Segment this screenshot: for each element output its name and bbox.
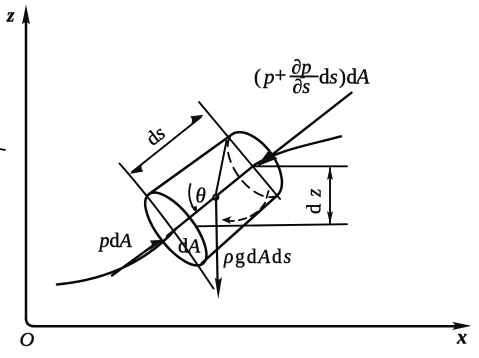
cylinder right face visible rim	[233, 132, 282, 195]
svg-text:∂s: ∂s	[293, 76, 311, 98]
z-axis arrowhead	[22, 5, 30, 25]
dz dimension vertical line	[329, 168, 331, 223]
x-axis	[26, 319, 455, 326]
svg-text:θ: θ	[196, 184, 206, 208]
angle arc dashed	[224, 191, 269, 221]
ds dimension arrow left	[130, 162, 145, 174]
label (p + dp/ds ds) dA	[254, 57, 370, 99]
ds dimension line	[132, 117, 201, 172]
gravity force arrow	[216, 197, 218, 279]
svg-text:+: +	[275, 63, 287, 87]
cylinder axis	[167, 165, 255, 236]
angle arc solid	[189, 184, 194, 210]
pressure force arrow pdA	[112, 246, 153, 276]
svg-text:pdA: pdA	[98, 230, 133, 252]
center point	[212, 194, 219, 201]
cylinder top silhouette	[149, 134, 233, 194]
svg-text:p: p	[262, 65, 275, 89]
cylinder bottom silhouette	[202, 196, 277, 263]
svg-text:O: O	[20, 329, 35, 351]
cylinder left face ellipse	[135, 183, 218, 275]
ds extension line left	[120, 164, 214, 289]
z-axis	[25, 22, 28, 319]
svg-text:dz: dz	[304, 182, 326, 214]
pressure force arrow on right face	[264, 93, 352, 161]
ds dimension arrow right	[189, 115, 204, 127]
dz arrow down	[327, 211, 333, 224]
fraction bar of dp/ds	[290, 75, 319, 77]
svg-text:): )	[339, 65, 346, 89]
streamline left segment	[57, 229, 176, 285]
svg-text:ρgdAds: ρgdAds	[223, 247, 293, 268]
ds extension line right	[199, 102, 280, 199]
svg-text:(: (	[254, 65, 261, 89]
left edge tick	[0, 149, 5, 150]
dz dimension top line	[254, 165, 347, 167]
svg-text:z: z	[6, 6, 15, 27]
dz dimension bottom line	[196, 224, 347, 226]
streamline right segment	[255, 136, 341, 164]
svg-text:A: A	[355, 65, 370, 89]
svg-text:s: s	[330, 65, 338, 89]
x-axis arrowhead	[452, 322, 472, 330]
dz arrow up	[327, 167, 333, 180]
svg-text:x: x	[456, 327, 467, 349]
svg-text:dA: dA	[178, 236, 201, 258]
svg-text:d: d	[319, 65, 330, 89]
cylinder right face hidden rim dashed	[228, 134, 277, 197]
vertical reference line from center to top silhouette	[216, 141, 227, 195]
